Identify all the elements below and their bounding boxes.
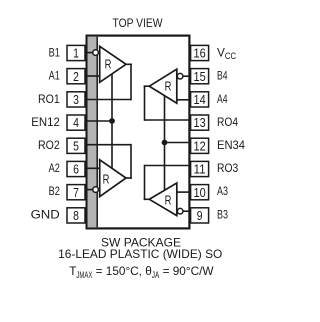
wire pin 6 (A2) to receiver R2 input xyxy=(85,167,100,169)
pin 9 box xyxy=(191,208,209,223)
pin 12 box xyxy=(191,138,209,153)
pin 8 box xyxy=(67,208,85,223)
receiver R4 (triangle) xyxy=(149,69,177,103)
wire EN34 enable vertical to R4 and R3 xyxy=(164,92,166,194)
svg-text:RO3: RO3 xyxy=(217,161,239,175)
inverting input bubble pin 9 (B3) xyxy=(177,208,183,214)
svg-text:2: 2 xyxy=(73,69,79,84)
pin 10 box xyxy=(191,185,209,200)
svg-text:16: 16 xyxy=(194,46,206,61)
pin 7 box xyxy=(67,185,85,200)
junction dot EN34 xyxy=(162,140,168,146)
svg-text:4: 4 xyxy=(73,115,79,130)
svg-text:7: 7 xyxy=(73,185,79,200)
wire receiver R4 output vertical xyxy=(144,85,146,120)
wire pin 12 (EN34) horizontal xyxy=(165,142,191,144)
wire receiver R3 apex to output corner xyxy=(144,198,154,200)
wire pin 2 (A1) to receiver R1 input xyxy=(85,75,100,77)
wire pin 5 (RO2) horizontal xyxy=(85,144,131,146)
svg-text:A2: A2 xyxy=(49,161,60,175)
inverting input bubble pin 15 (B4) xyxy=(177,73,183,79)
svg-text:R: R xyxy=(103,172,110,186)
svg-text:12: 12 xyxy=(194,138,206,153)
wire EN12 enable vertical to R1 and R2 xyxy=(111,62,113,176)
svg-text:6: 6 xyxy=(73,162,79,177)
svg-text:R: R xyxy=(165,79,172,93)
svg-text:B3: B3 xyxy=(217,207,228,221)
svg-text:A3: A3 xyxy=(217,184,228,198)
svg-text:11: 11 xyxy=(194,162,206,177)
wire pin 13 (RO4) horizontal xyxy=(145,119,191,121)
wire pin 11 (RO3) horizontal xyxy=(145,165,191,167)
pin 14 box xyxy=(191,92,209,107)
pin 4 box xyxy=(67,115,85,130)
svg-text:RO2: RO2 xyxy=(38,138,60,152)
svg-text:GND: GND xyxy=(31,207,60,221)
svg-text:15: 15 xyxy=(194,69,206,84)
wire receiver R1 output vertical xyxy=(130,64,132,101)
wire pin 3 (RO1) horizontal xyxy=(85,99,131,101)
svg-text:B2: B2 xyxy=(49,184,60,198)
pin 13 box xyxy=(191,115,209,130)
svg-text:RO4: RO4 xyxy=(217,115,238,129)
inverting input bubble pin 7 (B2) xyxy=(93,187,99,193)
pin 16 box xyxy=(191,45,209,60)
wire pin 15 (B4) to receiver R4 inverting input xyxy=(177,75,190,77)
svg-text:R: R xyxy=(165,194,172,208)
svg-text:3: 3 xyxy=(73,92,79,107)
svg-text:B1: B1 xyxy=(49,46,60,60)
junction dot EN12 xyxy=(109,118,115,124)
svg-text:A4: A4 xyxy=(217,92,228,106)
pin 6 box xyxy=(67,161,85,176)
svg-text:EN12: EN12 xyxy=(31,115,60,129)
wire pin 9 (B3) to receiver R3 inverting input xyxy=(177,210,190,212)
wire receiver R2 output vertical xyxy=(130,144,132,179)
wire pin 4 (EN12) horizontal xyxy=(85,120,112,122)
gray strip inner border line xyxy=(96,37,98,228)
svg-text:TOP VIEW: TOP VIEW xyxy=(113,16,164,30)
wire receiver R2 apex to output corner xyxy=(120,177,132,179)
wire pin 1 (B1) to receiver R1 inverting input xyxy=(85,52,100,54)
svg-text:1: 1 xyxy=(73,46,79,61)
svg-text:RO1: RO1 xyxy=(38,92,60,106)
inverting input bubble pin 1 (B1) xyxy=(93,50,99,56)
svg-text:A1: A1 xyxy=(49,69,60,83)
receiver R1 (triangle) xyxy=(100,46,126,82)
svg-text:13: 13 xyxy=(194,115,206,130)
svg-text:8: 8 xyxy=(73,208,79,223)
svg-text:5: 5 xyxy=(73,138,79,153)
wire receiver R1 apex to output corner xyxy=(120,63,132,65)
svg-text:R: R xyxy=(105,57,112,71)
pin 15 box xyxy=(191,69,209,84)
IC body U1 (SW package outline) xyxy=(87,36,190,229)
svg-text:B4: B4 xyxy=(217,69,228,83)
pin 1 box xyxy=(67,45,85,60)
pin 3 box xyxy=(67,92,85,107)
svg-text:14: 14 xyxy=(194,92,206,107)
svg-text:10: 10 xyxy=(194,185,206,200)
svg-text:9: 9 xyxy=(197,208,203,223)
pin 11 box xyxy=(191,161,209,176)
wire receiver R4 apex to output corner xyxy=(144,85,154,87)
wire pin 10 (A3) to receiver R3 input xyxy=(177,191,190,193)
wire pin 7 (B2) to receiver R2 inverting input xyxy=(85,189,100,191)
die-attach gray strip xyxy=(88,37,97,228)
svg-text:16-LEAD PLASTIC (WIDE) SO: 16-LEAD PLASTIC (WIDE) SO xyxy=(58,247,222,261)
pin 2 box xyxy=(67,69,85,84)
receiver R3 (triangle) xyxy=(149,183,177,216)
wire receiver R3 output vertical xyxy=(144,165,146,200)
wire pin 14 (A4) to receiver R4 input xyxy=(177,99,190,101)
pin 5 box xyxy=(67,138,85,153)
receiver R2 (triangle) xyxy=(100,160,126,197)
svg-text:EN34: EN34 xyxy=(217,138,245,152)
